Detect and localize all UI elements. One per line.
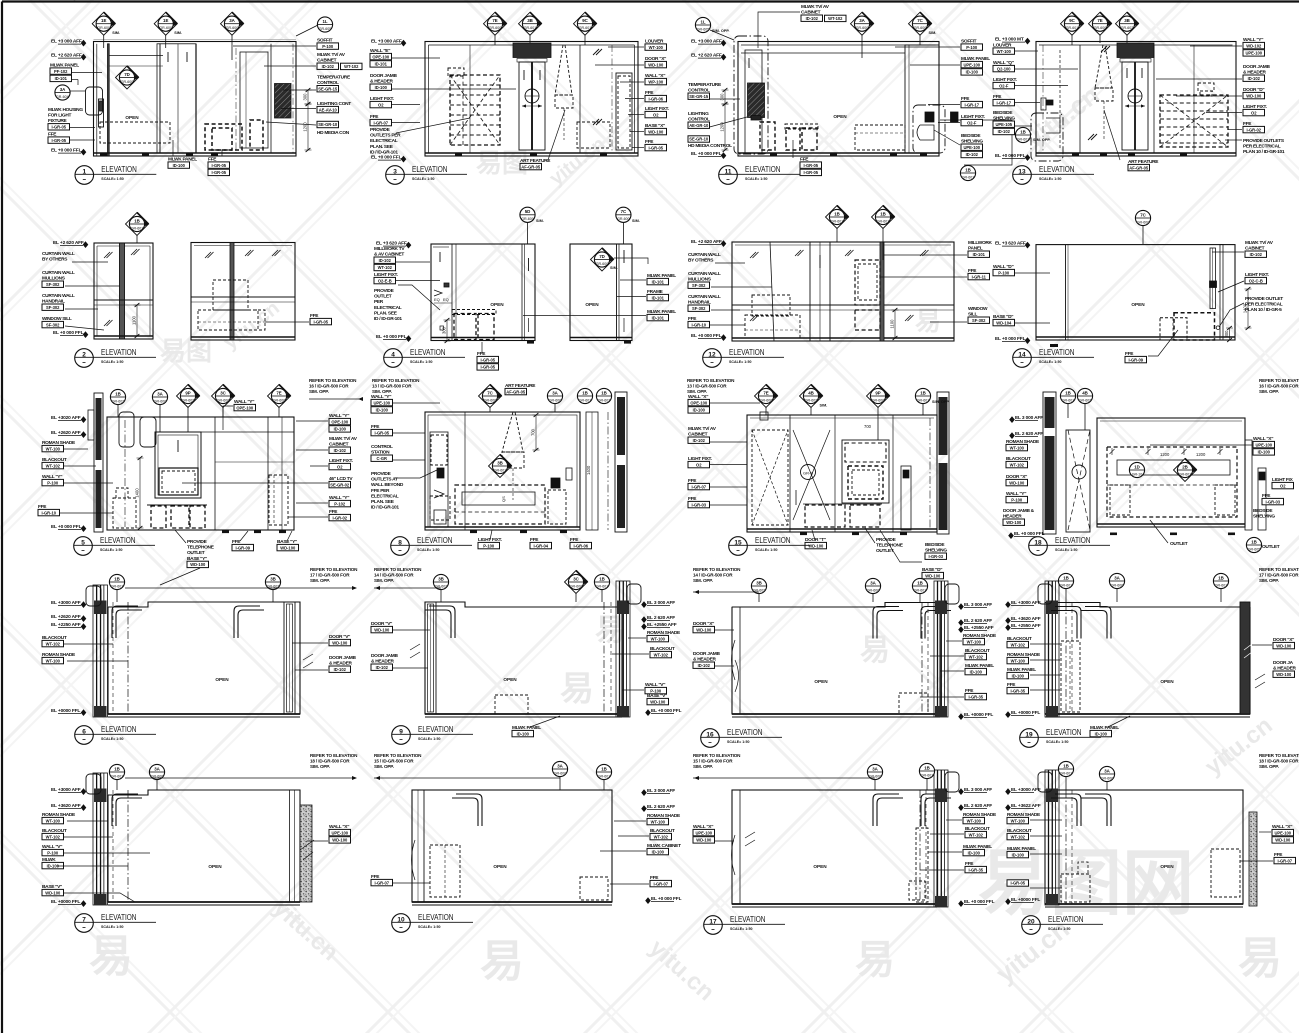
svg-text:GR-600: GR-600 xyxy=(1111,583,1124,587)
svg-text:SIM. OPP.: SIM. OPP. xyxy=(687,389,707,394)
svg-text:WT-102: WT-102 xyxy=(969,832,984,837)
svg-text:EL 3 000 AFF: EL 3 000 AFF xyxy=(964,787,992,793)
elevation 12 view xyxy=(732,242,954,341)
svg-text:OPEN: OPEN xyxy=(833,114,847,119)
svg-text:300: 300 xyxy=(720,93,725,101)
svg-text:SF-302: SF-302 xyxy=(692,283,706,288)
svg-text:4B: 4B xyxy=(808,390,814,395)
svg-text:17 / ID-GR-500 FOR: 17 / ID-GR-500 FOR xyxy=(1259,573,1299,578)
svg-text:SCALE= 1:50: SCALE= 1:50 xyxy=(418,737,440,741)
title elevation 6 xyxy=(75,726,94,745)
svg-text:WT-102: WT-102 xyxy=(654,652,669,657)
svg-text:ID-100: ID-100 xyxy=(376,408,389,413)
svg-text:ID / ID-GR-101: ID / ID-GR-101 xyxy=(371,505,399,511)
svg-text:MLWK TV/ AV: MLWK TV/ AV xyxy=(317,52,346,58)
svg-text:MILLWORK TV: MILLWORK TV xyxy=(374,246,405,252)
svg-text:I-GR-05: I-GR-05 xyxy=(374,430,389,435)
sheet border xyxy=(2,0,1299,2)
markers elevation 13 xyxy=(1071,24,1073,45)
svg-text:CURTAIN WALL: CURTAIN WALL xyxy=(42,251,75,257)
title elevation 18 xyxy=(1029,537,1048,556)
svg-text:I-GR-05: I-GR-05 xyxy=(648,145,663,150)
svg-text:EL +3000 AFF: EL +3000 AFF xyxy=(51,600,81,606)
svg-text:SIM. OPP.: SIM. OPP. xyxy=(1033,138,1050,142)
svg-text:FOR LIGHT: FOR LIGHT xyxy=(48,113,72,119)
svg-text:GR-600: GR-600 xyxy=(154,399,167,403)
svg-text:EL 2 620 AFF: EL 2 620 AFF xyxy=(647,804,675,810)
svg-text:SE-GR-02: SE-GR-02 xyxy=(330,482,350,487)
svg-text:WD-100: WD-100 xyxy=(332,640,348,645)
svg-text:GR-601: GR-601 xyxy=(877,219,890,223)
svg-text:3B: 3B xyxy=(497,460,503,465)
svg-text:ELEVATION: ELEVATION xyxy=(745,164,781,174)
svg-text:ELECTRICAL: ELECTRICAL xyxy=(370,138,398,144)
svg-text:C-GR: C-GR xyxy=(377,456,388,461)
svg-text:1L: 1L xyxy=(322,19,327,24)
svg-text:ID-100: ID-100 xyxy=(1012,673,1025,678)
title elevation 10 xyxy=(392,914,411,933)
svg-text:EL +0000 FFL: EL +0000 FFL xyxy=(1011,710,1040,716)
svg-text:3A: 3A xyxy=(1104,768,1110,773)
svg-text:GR-601: GR-601 xyxy=(921,773,934,777)
svg-text:ID-102: ID-102 xyxy=(376,665,389,670)
svg-text:EL +3 000 AFF: EL +3 000 AFF xyxy=(51,39,82,45)
svg-text:PLAN. SEE: PLAN. SEE xyxy=(371,499,395,505)
svg-text:DOOR JA: DOOR JA xyxy=(1273,660,1294,666)
svg-text:WD-100: WD-100 xyxy=(45,890,61,895)
svg-text:ID-101: ID-101 xyxy=(55,76,68,81)
svg-text:EL +3000 AFF: EL +3000 AFF xyxy=(1011,600,1041,606)
svg-text:EL +0000 FFL: EL +0000 FFL xyxy=(1011,897,1040,903)
svg-text:PER ELECTRICAL: PER ELECTRICAL xyxy=(1243,144,1281,150)
svg-text:1D: 1D xyxy=(1134,464,1140,469)
svg-text:ELEVATION: ELEVATION xyxy=(100,535,136,545)
svg-text:1B: 1B xyxy=(1218,575,1224,580)
svg-text:WD-100: WD-100 xyxy=(190,562,206,567)
svg-text:7D: 7D xyxy=(124,72,130,77)
svg-text:1B: 1B xyxy=(134,218,140,223)
svg-text:1B: 1B xyxy=(1063,763,1069,768)
svg-text:I-GR-06: I-GR-06 xyxy=(573,543,588,548)
svg-text:EL +3 000 AFF: EL +3 000 AFF xyxy=(371,39,402,45)
svg-text:EL +0 000 FFL: EL +0 000 FFL xyxy=(1014,531,1045,537)
svg-text:1B: 1B xyxy=(1020,129,1026,134)
svg-text:700: 700 xyxy=(864,424,872,429)
elevation 2 second panel xyxy=(191,243,295,341)
svg-text:GR-10: GR-10 xyxy=(1132,472,1143,476)
svg-text:PROVIDE OUTLETS: PROVIDE OUTLETS xyxy=(1243,138,1285,144)
svg-text:SCALE= 1:50: SCALE= 1:50 xyxy=(417,548,439,552)
svg-text:EL +3 000 MT: EL +3 000 MT xyxy=(995,37,1024,43)
svg-text:EL +0 000 FFL: EL +0 000 FFL xyxy=(651,708,682,714)
svg-text:GR-605: GR-605 xyxy=(319,27,332,31)
svg-text:WD-100: WD-100 xyxy=(280,545,296,550)
title elevation 7 xyxy=(75,914,94,933)
svg-text:WT-102: WT-102 xyxy=(1011,834,1026,839)
svg-text:ELECTRICAL: ELECTRICAL xyxy=(374,305,402,311)
svg-text:O2: O2 xyxy=(653,112,659,117)
svg-text:1B: 1B xyxy=(1063,575,1069,580)
markers elevation 10 xyxy=(559,769,561,790)
svg-text:ELEVATION: ELEVATION xyxy=(1039,164,1075,174)
svg-text:9C: 9C xyxy=(582,18,588,23)
svg-text:UPE-105: UPE-105 xyxy=(995,122,1012,127)
svg-text:13 / ID-GR-500 FOR: 13 / ID-GR-500 FOR xyxy=(372,384,412,389)
svg-text:WALL BEYOND: WALL BEYOND xyxy=(371,482,404,488)
svg-text:O2-F: O2-F xyxy=(999,83,1009,88)
svg-text:9P: 9P xyxy=(185,390,190,395)
svg-text:OPEN: OPEN xyxy=(1160,679,1174,684)
svg-text:EL +0 000 FFL: EL +0 000 FFL xyxy=(995,153,1026,159)
svg-text:3A: 3A xyxy=(552,390,558,395)
title elevation 1 xyxy=(75,166,94,185)
svg-text:I-GR-03: I-GR-03 xyxy=(691,502,706,507)
svg-text:EL +0 000 FFL: EL +0 000 FFL xyxy=(964,899,995,905)
svg-text:ID-102: ID-102 xyxy=(1250,252,1263,257)
markers elevation 8 xyxy=(489,396,491,412)
svg-text:TEMPERATURE: TEMPERATURE xyxy=(317,75,351,81)
svg-text:CONTROL: CONTROL xyxy=(371,444,393,450)
svg-text:UPE-100: UPE-100 xyxy=(963,62,980,67)
svg-text:1B: 1B xyxy=(601,766,607,771)
svg-text:EL +3620 AFF: EL +3620 AFF xyxy=(1011,616,1041,622)
svg-text:GR-601: GR-601 xyxy=(1179,472,1192,476)
svg-text:ELEVATION: ELEVATION xyxy=(1048,914,1084,924)
svg-text:GR-600: GR-600 xyxy=(856,26,869,30)
svg-text:SF-302: SF-302 xyxy=(46,322,60,327)
svg-text:3A: 3A xyxy=(557,763,563,768)
svg-text:PLAN 10 / ID-GR-5: PLAN 10 / ID-GR-5 xyxy=(1245,307,1282,313)
svg-text:SF-302: SF-302 xyxy=(692,306,706,311)
svg-text:SIM. OPP.: SIM. OPP. xyxy=(712,29,729,33)
svg-text:WP-100: WP-100 xyxy=(648,79,664,84)
svg-text:EL +2620 AFF: EL +2620 AFF xyxy=(51,430,81,436)
svg-text:SIM.: SIM. xyxy=(174,31,182,35)
svg-text:9C: 9C xyxy=(1069,18,1075,23)
svg-text:PER ELECTRICAL: PER ELECTRICAL xyxy=(1245,302,1283,308)
svg-text:ID-100: ID-100 xyxy=(173,163,186,168)
svg-text:O2: O2 xyxy=(1251,110,1257,115)
svg-text:1B: 1B xyxy=(965,167,971,172)
svg-text:GR-602: GR-602 xyxy=(1079,398,1092,402)
svg-text:5D: 5D xyxy=(525,209,531,214)
svg-text:17 / ID-GR-500 FOR: 17 / ID-GR-500 FOR xyxy=(310,573,350,578)
svg-text:I-GR-11: I-GR-11 xyxy=(972,274,987,279)
svg-text:OPE-100: OPE-100 xyxy=(690,400,708,405)
svg-text:OPEN: OPEN xyxy=(813,864,827,869)
svg-text:EL 3 000 AFF: EL 3 000 AFF xyxy=(964,602,992,608)
svg-text:ID-100: ID-100 xyxy=(517,731,530,736)
svg-text:GR-600: GR-600 xyxy=(1094,26,1107,30)
svg-text:SCALE= 1:50: SCALE= 1:50 xyxy=(418,925,440,929)
svg-text:MILLWORK: MILLWORK xyxy=(968,240,993,246)
svg-text:3B: 3B xyxy=(270,576,276,581)
svg-text:OUTLET: OUTLET xyxy=(1262,544,1280,550)
svg-text:UPE-100: UPE-100 xyxy=(963,145,980,150)
svg-text:WT-102: WT-102 xyxy=(1011,642,1026,647)
svg-text:PF-102: PF-102 xyxy=(54,69,68,74)
svg-text:OUTLET: OUTLET xyxy=(374,294,392,300)
elevation 1 view xyxy=(74,0,296,156)
svg-text:SIM.: SIM. xyxy=(112,31,120,35)
svg-text:PROVIDE: PROVIDE xyxy=(371,471,392,477)
svg-text:MLWK TV/ AV: MLWK TV/ AV xyxy=(329,436,358,442)
svg-text:3B: 3B xyxy=(756,580,762,585)
svg-text:SF-302: SF-302 xyxy=(972,318,986,323)
svg-text:OPEN: OPEN xyxy=(493,864,507,869)
svg-text:EL +0 000 FFL: EL +0 000 FFL xyxy=(51,148,82,154)
svg-text:GR-603: GR-603 xyxy=(598,398,611,402)
svg-text:7D: 7D xyxy=(599,254,605,259)
svg-text:EL +0 000 FFL: EL +0 000 FFL xyxy=(651,896,682,902)
elevation 6 view xyxy=(86,585,300,717)
svg-text:7E: 7E xyxy=(1097,18,1102,23)
svg-text:P-100: P-100 xyxy=(47,480,59,485)
title elevation 9 xyxy=(392,726,411,745)
svg-text:WT-102: WT-102 xyxy=(378,265,393,270)
svg-text:EL 3 000 AFF: EL 3 000 AFF xyxy=(647,788,675,794)
svg-text:REFER TO ELEVATION: REFER TO ELEVATION xyxy=(693,567,741,572)
markers elevation 6 xyxy=(116,582,118,602)
markers elevation 1 xyxy=(103,24,105,48)
svg-text:EL +2550 AFF: EL +2550 AFF xyxy=(964,625,994,631)
svg-text:BEDSIDE: BEDSIDE xyxy=(961,133,981,139)
svg-text:ELEVATION: ELEVATION xyxy=(417,535,453,545)
svg-text:UPE-100: UPE-100 xyxy=(695,830,712,835)
svg-text:易: 易 xyxy=(1238,934,1282,983)
svg-text:GR-600: GR-600 xyxy=(596,262,609,266)
svg-text:1B: 1B xyxy=(1251,539,1257,544)
svg-text:DOOR JAMB: DOOR JAMB xyxy=(329,655,356,661)
elevation 20 view xyxy=(1038,770,1257,907)
svg-text:WT-102: WT-102 xyxy=(969,654,984,659)
svg-text:300: 300 xyxy=(303,93,308,101)
svg-text:GR-600: GR-600 xyxy=(617,217,630,221)
markers elevation 4 xyxy=(527,215,529,244)
svg-text:AE-GR-10: AE-GR-10 xyxy=(689,123,709,128)
svg-text:1B: 1B xyxy=(924,765,930,770)
svg-text:GR-605: GR-605 xyxy=(697,27,710,31)
svg-text:GR-601: GR-601 xyxy=(131,226,144,230)
title elevation 11 xyxy=(719,166,738,185)
elevation 16 view xyxy=(732,581,960,717)
svg-text:SE-GR-10: SE-GR-10 xyxy=(689,137,709,142)
svg-text:GR-601: GR-601 xyxy=(917,398,930,402)
svg-text:P-100: P-100 xyxy=(998,270,1010,275)
svg-text:WT-100: WT-100 xyxy=(46,658,61,663)
svg-text:GR-600: GR-600 xyxy=(489,26,502,30)
svg-text:GR-601: GR-601 xyxy=(1066,26,1079,30)
svg-text:EL +0 000 FFL: EL +0 000 FFL xyxy=(371,155,402,161)
svg-text:EL +3020 AFF: EL +3020 AFF xyxy=(51,415,81,421)
svg-text:WD-100: WD-100 xyxy=(1275,838,1291,843)
svg-text:300: 300 xyxy=(1224,330,1229,338)
svg-text:OPEN: OPEN xyxy=(125,115,139,120)
svg-text:3B: 3B xyxy=(527,18,533,23)
svg-text:EL +3 620 AFF: EL +3 620 AFF xyxy=(376,241,407,247)
svg-text:GR-600: GR-600 xyxy=(570,584,583,588)
svg-text:1E: 1E xyxy=(101,18,106,23)
svg-text:I-GR-07: I-GR-07 xyxy=(691,484,706,489)
svg-text:I-GR-35: I-GR-35 xyxy=(968,694,983,699)
svg-text:GR-601: GR-601 xyxy=(579,26,592,30)
svg-text:SCALE= 1:50: SCALE= 1:50 xyxy=(745,177,767,181)
svg-text:WD-100: WD-100 xyxy=(332,838,348,843)
svg-text:PER: PER xyxy=(374,299,384,305)
svg-text:GR-601: GR-601 xyxy=(598,774,611,778)
svg-text:ID-102: ID-102 xyxy=(698,663,711,668)
svg-text:SIM.: SIM. xyxy=(929,31,937,35)
svg-text:GR-600: GR-600 xyxy=(217,398,230,402)
svg-text:SCALE= 1:50: SCALE= 1:50 xyxy=(729,360,751,364)
svg-text:SE-GR-15: SE-GR-15 xyxy=(318,86,338,91)
svg-text:I-GR-07: I-GR-07 xyxy=(374,880,389,885)
svg-text:ELEVATION: ELEVATION xyxy=(418,912,454,922)
svg-text:PLAN. SEE: PLAN. SEE xyxy=(370,144,394,150)
svg-text:I-GR-07: I-GR-07 xyxy=(373,120,388,125)
svg-text:3A: 3A xyxy=(872,766,878,771)
svg-text:WT-102: WT-102 xyxy=(46,463,61,468)
svg-text:EL +2 620 AFF: EL +2 620 AFF xyxy=(51,53,82,59)
svg-text:CURTAIN WALL: CURTAIN WALL xyxy=(688,294,721,300)
svg-text:WT-102: WT-102 xyxy=(654,834,669,839)
svg-text:I-GR-05: I-GR-05 xyxy=(211,163,226,168)
svg-text:GR-601: GR-601 xyxy=(1062,398,1075,402)
elevation 15 view xyxy=(747,392,949,535)
svg-text:I-GR-05: I-GR-05 xyxy=(51,125,66,130)
svg-text:CURTAIN WALL: CURTAIN WALL xyxy=(688,271,721,277)
svg-text:OPE-100: OPE-100 xyxy=(236,405,254,410)
svg-text:SF-302: SF-302 xyxy=(46,305,60,310)
svg-text:GR-B: GR-B xyxy=(803,471,813,476)
svg-text:OPEN: OPEN xyxy=(814,679,828,684)
svg-text:FFE PER: FFE PER xyxy=(371,488,390,494)
svg-text:OPEN: OPEN xyxy=(585,302,599,307)
elevation 4 second panel xyxy=(570,244,632,344)
svg-text:EL 2 620 AFF: EL 2 620 AFF xyxy=(647,615,675,621)
title elevation 2 xyxy=(75,349,94,368)
svg-text:ID-100: ID-100 xyxy=(966,70,979,75)
svg-text:ELEVATION: ELEVATION xyxy=(101,164,137,174)
svg-text:ID-101: ID-101 xyxy=(973,252,986,257)
svg-text:ELEVATION: ELEVATION xyxy=(755,535,791,545)
markers elevation 9 xyxy=(440,582,442,602)
svg-text:GR-605: GR-605 xyxy=(1248,547,1261,551)
svg-text:REFER TO ELEVATION: REFER TO ELEVATION xyxy=(687,378,735,383)
svg-text:I-GR-09: I-GR-09 xyxy=(235,545,250,550)
svg-text:BEDSIDE: BEDSIDE xyxy=(925,542,945,548)
svg-text:ID / ID-GR-101: ID / ID-GR-101 xyxy=(370,149,398,155)
svg-text:SIM. OPP.: SIM. OPP. xyxy=(693,578,713,583)
svg-text:7E: 7E xyxy=(276,390,281,395)
svg-text:9P: 9P xyxy=(875,390,880,395)
svg-text:GR-600: GR-600 xyxy=(484,398,497,402)
svg-text:ID-100: ID-100 xyxy=(1258,450,1271,455)
svg-text:DOOR JAMB: DOOR JAMB xyxy=(370,73,397,79)
svg-text:1B: 1B xyxy=(115,391,121,396)
svg-text:SE-GR-15: SE-GR-15 xyxy=(689,94,709,99)
svg-text:1400: 1400 xyxy=(586,465,591,475)
svg-text:AF-GR-05: AF-GR-05 xyxy=(506,389,526,394)
svg-text:P-100: P-100 xyxy=(322,44,334,49)
svg-text:1B: 1B xyxy=(917,580,923,585)
svg-text:REFER TO ELEVATION: REFER TO ELEVATION xyxy=(693,753,741,758)
svg-text:WT-100: WT-100 xyxy=(651,636,666,641)
svg-text:OPEN: OPEN xyxy=(503,677,517,682)
svg-text:SIM. OPP.: SIM. OPP. xyxy=(1259,389,1279,394)
svg-text:易: 易 xyxy=(915,306,941,336)
svg-text:SCALE= 1:50: SCALE= 1:50 xyxy=(755,548,777,552)
svg-text:AF-GR-05: AF-GR-05 xyxy=(1129,165,1149,170)
svg-text:WD-100: WD-100 xyxy=(648,129,664,134)
svg-text:ID-101: ID-101 xyxy=(652,279,665,284)
svg-text:ELEVATION: ELEVATION xyxy=(101,724,137,734)
svg-text:WD-100: WD-100 xyxy=(1276,672,1292,677)
svg-text:P-100: P-100 xyxy=(1011,497,1023,502)
svg-text:REFER TO ELEVATION: REFER TO ELEVATION xyxy=(1259,753,1299,758)
svg-text:OPEN: OPEN xyxy=(215,677,229,682)
title elevation 19 xyxy=(1020,729,1039,748)
title elevation 4 xyxy=(384,349,403,368)
svg-text:SCALE= 1:50: SCALE= 1:50 xyxy=(727,740,749,744)
svg-text:OUTLET: OUTLET xyxy=(1170,541,1188,547)
svg-text:ID-100: ID-100 xyxy=(693,408,706,413)
svg-text:I-GR-35: I-GR-35 xyxy=(968,867,983,872)
svg-text:REFER TO ELEVATION: REFER TO ELEVATION xyxy=(310,753,358,758)
svg-text:OPEN: OPEN xyxy=(1131,302,1145,307)
svg-text:OUTLET: OUTLET xyxy=(876,548,894,554)
svg-text:ID-101: ID-101 xyxy=(652,295,665,300)
svg-text:EL +0 000 FFL: EL +0 000 FFL xyxy=(53,330,84,336)
svg-text:GR-600: GR-600 xyxy=(121,80,134,84)
svg-text:SCALE= 1:50: SCALE= 1:50 xyxy=(101,737,123,741)
svg-text:SIM. OPP.: SIM. OPP. xyxy=(309,389,329,394)
svg-text:WT-100: WT-100 xyxy=(1010,445,1025,450)
svg-text:MLWK TV/ AV: MLWK TV/ AV xyxy=(801,4,830,10)
svg-text:EL +3620 AFF: EL +3620 AFF xyxy=(51,803,81,809)
svg-text:P-102: P-102 xyxy=(334,501,346,506)
svg-text:ID-102: ID-102 xyxy=(1248,76,1261,81)
svg-text:OUTLETS PER: OUTLETS PER xyxy=(370,133,401,139)
svg-text:3A: 3A xyxy=(859,18,865,23)
svg-text:I-GR-05: I-GR-05 xyxy=(480,365,495,370)
markers elevation 7 xyxy=(116,772,118,790)
svg-text:易: 易 xyxy=(480,937,524,986)
svg-text:EL +3622 AFF: EL +3622 AFF xyxy=(1011,803,1041,809)
svg-text:SCALE= 1:50: SCALE= 1:50 xyxy=(100,548,122,552)
svg-text:7E: 7E xyxy=(492,18,497,23)
svg-text:GR-600: GR-600 xyxy=(914,26,927,30)
svg-text:BY OTHERS: BY OTHERS xyxy=(688,258,714,264)
elevation 2 view xyxy=(94,243,153,339)
svg-text:REFER TO ELEVATION: REFER TO ELEVATION xyxy=(374,567,422,572)
svg-text:3A: 3A xyxy=(157,391,163,396)
svg-text:EL +0000 FFL: EL +0000 FFL xyxy=(51,708,80,714)
elevation 11 view xyxy=(734,36,958,156)
svg-text:WT-102: WT-102 xyxy=(46,641,61,646)
svg-text:13 / ID-GR-500 FOR: 13 / ID-GR-500 FOR xyxy=(687,384,727,389)
svg-text:EL 2 620 AFF: EL 2 620 AFF xyxy=(964,803,992,809)
svg-text:1B: 1B xyxy=(920,390,926,395)
svg-text:1B: 1B xyxy=(114,576,120,581)
svg-text:ID-100: ID-100 xyxy=(652,849,665,854)
svg-text:14 / ID-GR-500 FOR: 14 / ID-GR-500 FOR xyxy=(693,573,733,578)
svg-text:SCALE= 1:50: SCALE= 1:50 xyxy=(1046,740,1068,744)
svg-text:7C: 7C xyxy=(487,390,493,395)
elevation 3 view xyxy=(425,42,638,157)
markers elevation 20 xyxy=(1065,769,1067,790)
svg-text:易: 易 xyxy=(860,634,890,667)
